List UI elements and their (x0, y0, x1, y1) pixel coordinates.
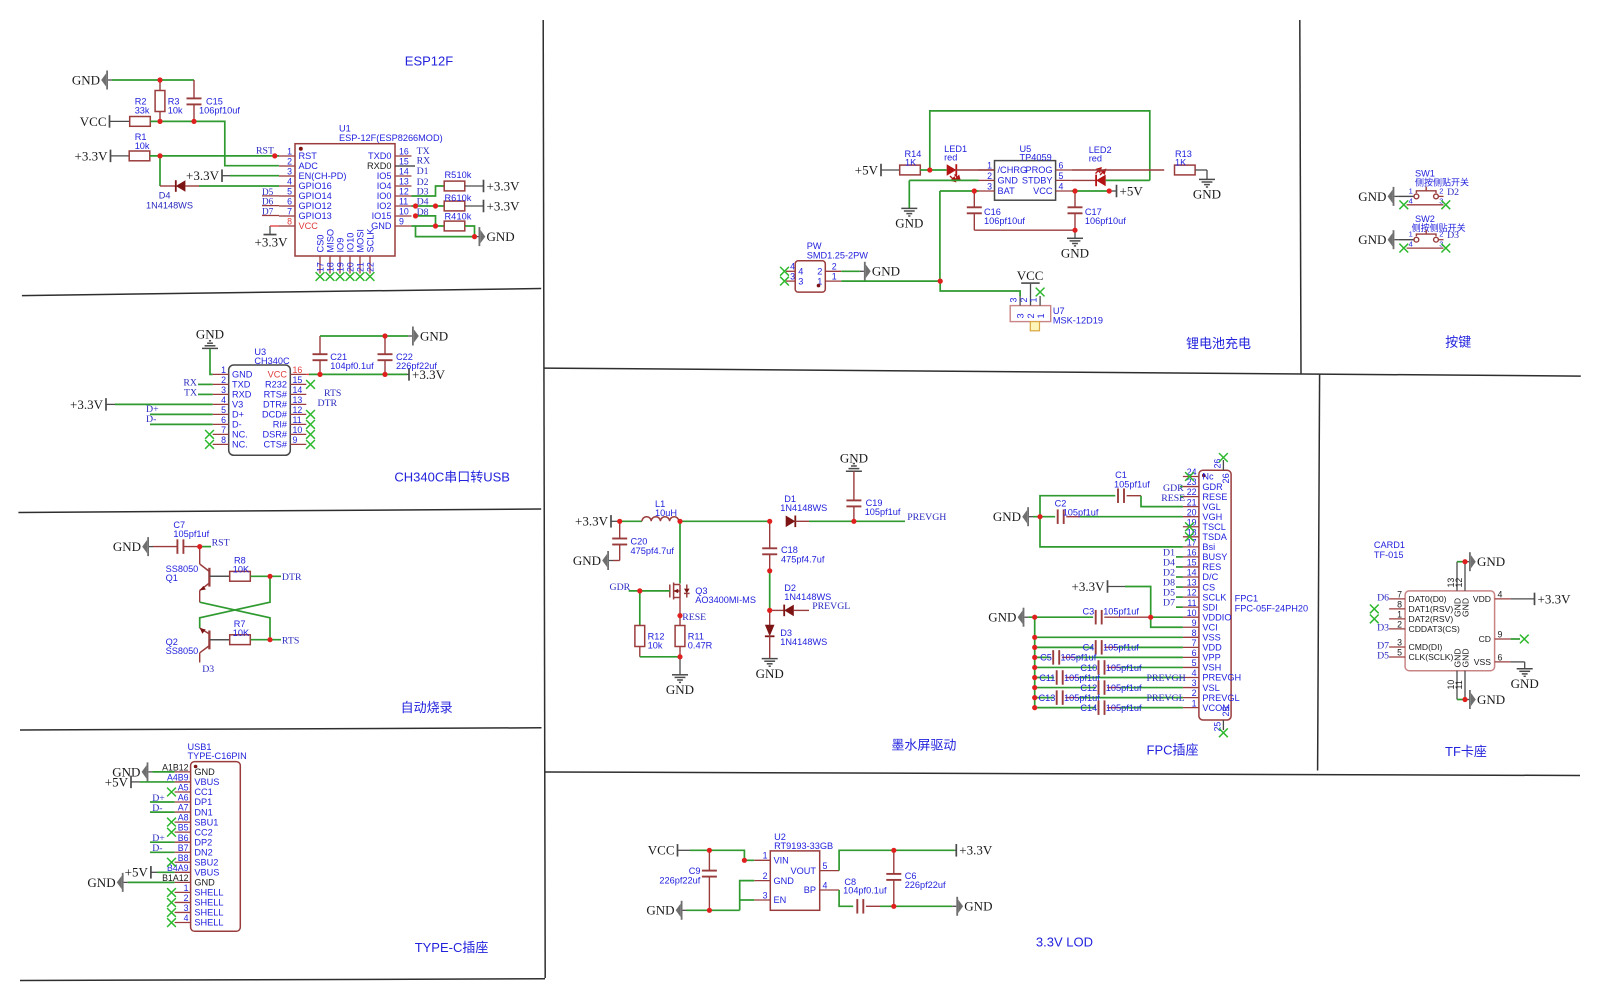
svg-text:VCI: VCI (1202, 622, 1217, 632)
no-connect pin25 (1219, 728, 1228, 737)
svg-text:C4: C4 (1083, 643, 1095, 653)
svg-text:2: 2 (832, 262, 837, 272)
ground flag bottom left (683, 909, 687, 911)
svg-text:CD: CD (1479, 634, 1491, 644)
svg-text:VCC: VCC (1033, 186, 1053, 196)
U1 pin 2 ADC (279, 165, 295, 167)
switch SW1 body (1398, 195, 1413, 197)
U1 pin 13 IO4 (395, 185, 412, 187)
U1 pin 7 GPIO13 (279, 215, 295, 217)
svg-text:2: 2 (987, 171, 992, 181)
wire C2 to VGH (1080, 516, 1183, 518)
svg-text:BUSY: BUSY (1202, 552, 1227, 562)
svg-text:R6: R6 (445, 193, 457, 203)
svg-text:15: 15 (1187, 558, 1197, 568)
junction (1032, 615, 1037, 620)
svg-text:red: red (1089, 154, 1102, 164)
CARD1 pin 11 GND bottom (1464, 671, 1466, 700)
U7 pin 3 (1019, 296, 1021, 306)
junction (413, 213, 418, 218)
junction (157, 77, 162, 82)
CARD1 pin 6 VSS (1495, 661, 1511, 663)
U1 pin 20 IO10 (349, 256, 351, 274)
power port +5V pin A4B9 (130, 776, 132, 789)
power port +3.3V left (610, 515, 612, 528)
svg-text:R4: R4 (445, 211, 457, 221)
wire LED1 to pin1 (956, 169, 994, 171)
capacitor C1 (1117, 488, 1119, 503)
USB1 pin 3 SHELL (175, 911, 191, 913)
svg-text:226pf22uf: 226pf22uf (659, 876, 700, 886)
svg-text:12: 12 (1187, 588, 1197, 598)
pin 1 marker dot (194, 765, 198, 769)
svg-text:RI#: RI# (273, 420, 288, 430)
junction (767, 608, 772, 613)
wire left rail (1034, 617, 1036, 707)
svg-text:+3.3V: +3.3V (186, 168, 220, 183)
svg-text:RT9193-33GB: RT9193-33GB (774, 841, 833, 851)
no-connect B8 (167, 858, 176, 867)
junction (677, 654, 682, 659)
PW pin1 (825, 280, 841, 282)
svg-text:2: 2 (184, 893, 189, 903)
wire R4 to GND (465, 226, 475, 237)
U3 pin 15 R232 (290, 383, 306, 385)
svg-text:GND: GND (87, 875, 115, 890)
wire gate pulldown (639, 591, 641, 626)
svg-text:0.47R: 0.47R (688, 641, 713, 651)
resistor R1 (129, 151, 150, 161)
svg-text:IO10: IO10 (345, 233, 355, 253)
svg-text:DAT1(RSV): DAT1(RSV) (1409, 604, 1454, 614)
wire EN pin (230, 175, 279, 177)
IC U3 CH340C body (229, 365, 291, 455)
svg-text:1: 1 (1192, 698, 1197, 708)
wire VOUT to +3.3V (839, 850, 955, 870)
wire BP down (839, 890, 853, 906)
U1 pin 3 EN(CH-PD) (279, 175, 295, 177)
svg-text:+3.3V: +3.3V (70, 397, 104, 412)
svg-text:1K: 1K (1175, 157, 1187, 167)
FPC1 pin 3 VSL (1183, 687, 1199, 689)
svg-text:1: 1 (221, 365, 226, 375)
svg-text:MOSI: MOSI (355, 229, 365, 252)
svg-text:26: 26 (1221, 473, 1231, 483)
svg-text:TSCL: TSCL (1202, 522, 1226, 532)
U3 pin 1 GND (213, 373, 229, 375)
svg-text:RST: RST (299, 151, 318, 161)
wire VCC net to +3.3V (306, 373, 309, 375)
FPC1 pin 22 RESE (1183, 496, 1199, 498)
svg-text:6: 6 (1192, 648, 1197, 658)
svg-text:VCC: VCC (299, 221, 319, 231)
wire cap bottom rail (974, 229, 1075, 231)
FPC1 pin 21 VGL (1183, 506, 1199, 508)
wire (152, 771, 174, 773)
wire +3.3V to VCI/VDDIO (1125, 587, 1183, 628)
svg-text:19: 19 (335, 262, 345, 272)
wire VCC row (150, 121, 279, 165)
resistor R5 (444, 181, 465, 191)
wire D1 to PREVGH (809, 520, 905, 522)
svg-text:CH340C: CH340C (254, 356, 290, 366)
svg-text:VSL: VSL (1202, 683, 1219, 693)
section divider vertical right upper (1300, 20, 1301, 374)
svg-text:D3: D3 (1447, 230, 1459, 241)
svg-text:V3: V3 (232, 400, 243, 410)
wire GND pin2 left (909, 179, 978, 181)
svg-text:TF-015: TF-015 (1374, 550, 1404, 560)
wire GND rail right (416, 226, 475, 237)
pin 1 marker dot (299, 147, 303, 151)
wire D- (150, 423, 213, 425)
svg-text:1: 1 (287, 146, 292, 156)
svg-text:2: 2 (1397, 620, 1402, 630)
svg-text:/CHRG: /CHRG (998, 165, 1028, 175)
svg-text:2: 2 (221, 375, 226, 385)
ground flag bottom (1465, 699, 1469, 701)
svg-text:GND: GND (964, 899, 992, 914)
svg-text:VIN: VIN (774, 856, 789, 866)
svg-text:GND: GND (895, 216, 923, 231)
svg-text:TYPE-C16PIN: TYPE-C16PIN (188, 751, 247, 761)
svg-text:VGH: VGH (1202, 512, 1222, 522)
svg-text:14: 14 (399, 166, 409, 176)
junction (891, 904, 896, 909)
svg-text:SBU2: SBU2 (194, 857, 218, 867)
USB1 pin B1A12 GND (175, 881, 191, 883)
FPC1 pin 12 SCLK (1183, 596, 1199, 598)
junction (1032, 635, 1037, 640)
svg-text:9: 9 (1192, 618, 1197, 628)
wire PW pin1 rail (841, 280, 940, 282)
svg-text:1: 1 (184, 883, 189, 893)
svg-text:A5: A5 (178, 783, 189, 793)
resistor R14 (900, 165, 921, 175)
svg-text:10: 10 (399, 206, 409, 216)
svg-text:5: 5 (1397, 648, 1402, 658)
wire top gnd pins (1457, 561, 1465, 563)
U3 pin 12 DCD# (290, 413, 306, 415)
power port VCC (677, 844, 679, 857)
svg-text:A7: A7 (178, 803, 189, 813)
no-connect pin15 (306, 380, 315, 389)
svg-text:105pf1uf: 105pf1uf (865, 507, 901, 517)
capacitor C7 (153, 546, 177, 548)
svg-text:CS0: CS0 (315, 235, 325, 253)
svg-text:105pf1uf: 105pf1uf (1106, 703, 1142, 713)
svg-text:105pf1uf: 105pf1uf (1106, 683, 1142, 693)
wire C5 to pin (1075, 656, 1183, 658)
svg-text:3: 3 (1192, 678, 1197, 688)
power port +5V pin B4A9 (150, 866, 152, 879)
no-connect pin7 (205, 430, 214, 439)
svg-text:C3: C3 (1083, 607, 1095, 617)
svg-text:GND: GND (1061, 246, 1089, 261)
diode D3 1N4148WS (769, 610, 771, 625)
ground flag bottom right (952, 905, 956, 907)
svg-text:2: 2 (817, 267, 822, 277)
junction (927, 167, 932, 172)
USB1 pin A4B9 VBUS (175, 781, 191, 783)
junction (267, 637, 272, 642)
svg-text:VOUT: VOUT (790, 866, 816, 876)
svg-text:1: 1 (832, 272, 837, 282)
svg-text:1: 1 (1409, 186, 1413, 195)
svg-text:FPC插座: FPC插座 (1147, 743, 1199, 758)
svg-text:RXD0: RXD0 (367, 161, 392, 171)
svg-text:9: 9 (1498, 630, 1503, 640)
svg-text:VSH: VSH (1202, 663, 1221, 673)
svg-text:18: 18 (325, 262, 335, 272)
svg-text:4: 4 (1498, 590, 1503, 600)
junction (197, 544, 202, 549)
U3 pin 9 CTS# (290, 443, 306, 445)
wire GND pin to flag (412, 225, 445, 227)
U2 pin 5 VOUT (820, 870, 839, 872)
U1 pin 17 CS0 (319, 256, 321, 274)
U3 pin 6 D- (213, 423, 229, 425)
junction (267, 574, 272, 579)
svg-text:TYPE-C插座: TYPE-C插座 (415, 940, 489, 955)
junction (1032, 645, 1037, 650)
FPC1 pin 6 VPP (1183, 656, 1199, 658)
svg-text:3.3V LOD: 3.3V LOD (1036, 935, 1093, 950)
wire C14 to pin (1121, 707, 1183, 709)
wire drain from L1 node (679, 521, 681, 583)
capacitor C6 (893, 850, 895, 874)
svg-text:GND: GND (998, 176, 1019, 186)
no-connect SW2 pin4 (1399, 244, 1408, 253)
svg-text:SCLK: SCLK (1202, 592, 1227, 602)
power port +3.3V to EN (221, 169, 223, 182)
svg-text:D+: D+ (232, 410, 244, 420)
no-connect SW1 pin3 (1441, 200, 1450, 209)
svg-text:DTR: DTR (282, 572, 302, 583)
svg-text:D-: D- (232, 420, 242, 430)
wire D5 (1176, 596, 1183, 598)
U3 pin 16 VCC (290, 373, 306, 375)
wire cross couple 2 (200, 602, 270, 640)
wire C8 to GND (880, 905, 952, 907)
FPC1 pin 19 TSCL (1183, 526, 1199, 528)
svg-text:TF卡座: TF卡座 (1445, 744, 1487, 759)
svg-text:+3.3V: +3.3V (1538, 591, 1572, 606)
svg-text:GND: GND (72, 72, 100, 87)
junction (677, 519, 682, 524)
svg-text:IO0: IO0 (377, 191, 392, 201)
junction (157, 153, 162, 158)
svg-text:13: 13 (293, 395, 303, 405)
svg-text:6: 6 (1498, 653, 1503, 663)
svg-text:105pf1uf: 105pf1uf (1064, 673, 1100, 683)
junction (1032, 695, 1037, 700)
USB1 pin B7 DN2 (175, 851, 191, 853)
svg-text:226pf22uf: 226pf22uf (905, 880, 946, 890)
junction (767, 568, 772, 573)
svg-text:GDR: GDR (1202, 482, 1223, 492)
earth ground right of R13 (1199, 179, 1215, 187)
capacitor C9 (708, 850, 710, 870)
CARD1 pin 8 DAT1(RSV) (1389, 608, 1405, 610)
ground flag SW2 (1394, 239, 1398, 241)
junction (272, 153, 277, 158)
U3 pin 7 NC. (213, 433, 229, 435)
switch SW1 pin2 stub (1438, 195, 1443, 197)
power port +3.3V right (955, 844, 957, 857)
svg-text:4: 4 (790, 262, 795, 272)
junction (1107, 188, 1112, 193)
CARD1 pin 12 GND top (1464, 562, 1466, 591)
svg-text:B5: B5 (178, 823, 189, 833)
FPC1 pin 15 RES (1183, 566, 1199, 568)
USB1 pin 1 SHELL (175, 891, 191, 893)
junction (1462, 697, 1467, 702)
capacitor C3 (1095, 610, 1097, 625)
svg-text:DN2: DN2 (194, 847, 212, 857)
svg-text:104pf0.1uf: 104pf0.1uf (330, 361, 374, 371)
wire D+ (150, 801, 175, 803)
resistor R6 (444, 201, 465, 211)
U3 pin 4 V3 (213, 403, 229, 405)
wire PROG pin6 to R13 (1072, 169, 1165, 171)
svg-text:8: 8 (1192, 628, 1197, 638)
svg-text:PREVGL: PREVGL (812, 601, 850, 612)
wire TX (198, 393, 213, 395)
svg-text:5: 5 (823, 861, 828, 871)
FPC1 pin 20 VGH (1183, 516, 1199, 518)
svg-text:2: 2 (1026, 313, 1036, 318)
svg-text:FPC-05F-24PH20: FPC-05F-24PH20 (1235, 603, 1309, 613)
U3 pin 11 RI# (290, 423, 306, 425)
svg-text:12: 12 (1454, 578, 1464, 588)
svg-text:GND: GND (232, 370, 253, 380)
wire (140, 781, 175, 783)
transistor Q1 SS8050 (199, 547, 201, 564)
wire stubs D5 D6 D7 (262, 195, 279, 197)
svg-text:GND: GND (872, 264, 900, 279)
CARD1 pin 13 GND top (1456, 562, 1458, 591)
U1 pin 16 TXD0 (395, 155, 412, 157)
svg-text:1: 1 (1029, 298, 1039, 303)
svg-text:GND: GND (420, 328, 448, 343)
wire C4 to pin (1118, 646, 1183, 648)
svg-text:4: 4 (184, 913, 189, 923)
wire GND to C3 (1028, 616, 1093, 618)
wire to L1 (620, 520, 642, 522)
IC U5 TP4059 body (995, 161, 1056, 201)
svg-text:DP2: DP2 (194, 837, 212, 847)
svg-text:TXD0: TXD0 (368, 151, 392, 161)
no-connect A8 (167, 818, 176, 827)
FPC1 pin 16 BUSY (1183, 556, 1199, 558)
svg-text:GPIO13: GPIO13 (299, 211, 332, 221)
svg-text:2: 2 (1439, 230, 1443, 239)
capacitor C22 (384, 360, 386, 374)
wire D7 (1176, 606, 1183, 608)
no-connect B5 (167, 828, 176, 837)
wire GND to C2 (1033, 516, 1055, 518)
svg-text:CTS#: CTS# (264, 440, 288, 450)
USB1 pin 4 SHELL (175, 922, 191, 924)
svg-text:10k: 10k (168, 106, 183, 116)
capacitor C20 (619, 521, 621, 538)
U1 pin 9 GND (395, 225, 412, 227)
resistor R2 (130, 117, 151, 127)
svg-text:自动烧录: 自动烧录 (401, 700, 453, 715)
svg-text:20: 20 (345, 262, 355, 272)
svg-text:4: 4 (823, 880, 828, 890)
wire D- (150, 811, 175, 813)
wire IO0 to R5 (412, 186, 445, 196)
svg-text:CC2: CC2 (194, 827, 212, 837)
U3 pin 8 NC. (213, 443, 229, 445)
ground flag pin B1A12 (124, 881, 128, 883)
wire rail down to Bsi (1040, 517, 1183, 547)
svg-text:Bsi: Bsi (1202, 542, 1215, 552)
svg-text:PREVGL: PREVGL (1202, 693, 1239, 703)
svg-text:IO15: IO15 (372, 211, 392, 221)
svg-text:11: 11 (1454, 680, 1464, 689)
CARD1 pin 7 DAT0(D0) (1389, 598, 1405, 600)
connector CARD1 TF-015 body (1405, 591, 1495, 671)
junction (707, 848, 712, 853)
svg-text:CARD1: CARD1 (1374, 540, 1405, 550)
svg-text:B1A12: B1A12 (162, 873, 189, 883)
IC U1 ESP-12F body (295, 144, 395, 256)
wire BAT pin3 (940, 190, 979, 192)
svg-text:+3.3V: +3.3V (1072, 579, 1106, 594)
junction (472, 234, 477, 239)
CARD1 pin 5 CLK(SCLK) (1389, 656, 1405, 658)
FPC1 pin 26 top (1222, 460, 1224, 470)
svg-text:CDDAT3(CS): CDDAT3(CS) (1409, 624, 1461, 634)
svg-text:1N4148WS: 1N4148WS (146, 201, 193, 211)
svg-text:+3.3V: +3.3V (487, 198, 521, 213)
svg-text:4: 4 (1409, 240, 1413, 249)
junction (1072, 228, 1077, 233)
resistor R11 (675, 626, 685, 647)
svg-text:10K: 10K (233, 628, 250, 638)
svg-text:105pf1uf: 105pf1uf (1064, 693, 1100, 703)
svg-text:16: 16 (293, 365, 303, 375)
svg-text:7: 7 (1397, 590, 1402, 600)
svg-text:VCC: VCC (268, 370, 288, 380)
svg-text:13: 13 (1187, 578, 1197, 588)
no-connect DAT1 (1370, 605, 1379, 614)
svg-text:RESE: RESE (1161, 493, 1185, 504)
svg-text:A1B12: A1B12 (162, 763, 189, 773)
svg-text:11: 11 (399, 196, 408, 206)
junction (382, 372, 387, 377)
svg-text:PREVGH: PREVGH (907, 512, 946, 523)
U1 pin 22 SCLK (369, 256, 371, 274)
no-connect U7 pin1 (1036, 288, 1045, 297)
svg-text:5: 5 (1192, 658, 1197, 668)
svg-text:GND: GND (1358, 232, 1386, 247)
svg-text:106pf10uf: 106pf10uf (199, 106, 240, 116)
CARD1 pin 2 CDDAT3(CS) (1389, 628, 1405, 630)
svg-text:GND: GND (573, 553, 601, 568)
svg-text:C13: C13 (1039, 693, 1056, 703)
svg-text:VSS: VSS (1202, 633, 1220, 643)
svg-text:15: 15 (399, 156, 409, 166)
capacitor C19 (853, 471, 855, 500)
switch U7 MSK-12D19 body (1010, 306, 1050, 322)
svg-text:D2: D2 (1447, 187, 1459, 198)
power port +3.3V right (408, 368, 410, 381)
svg-text:PROG: PROG (1025, 165, 1052, 175)
